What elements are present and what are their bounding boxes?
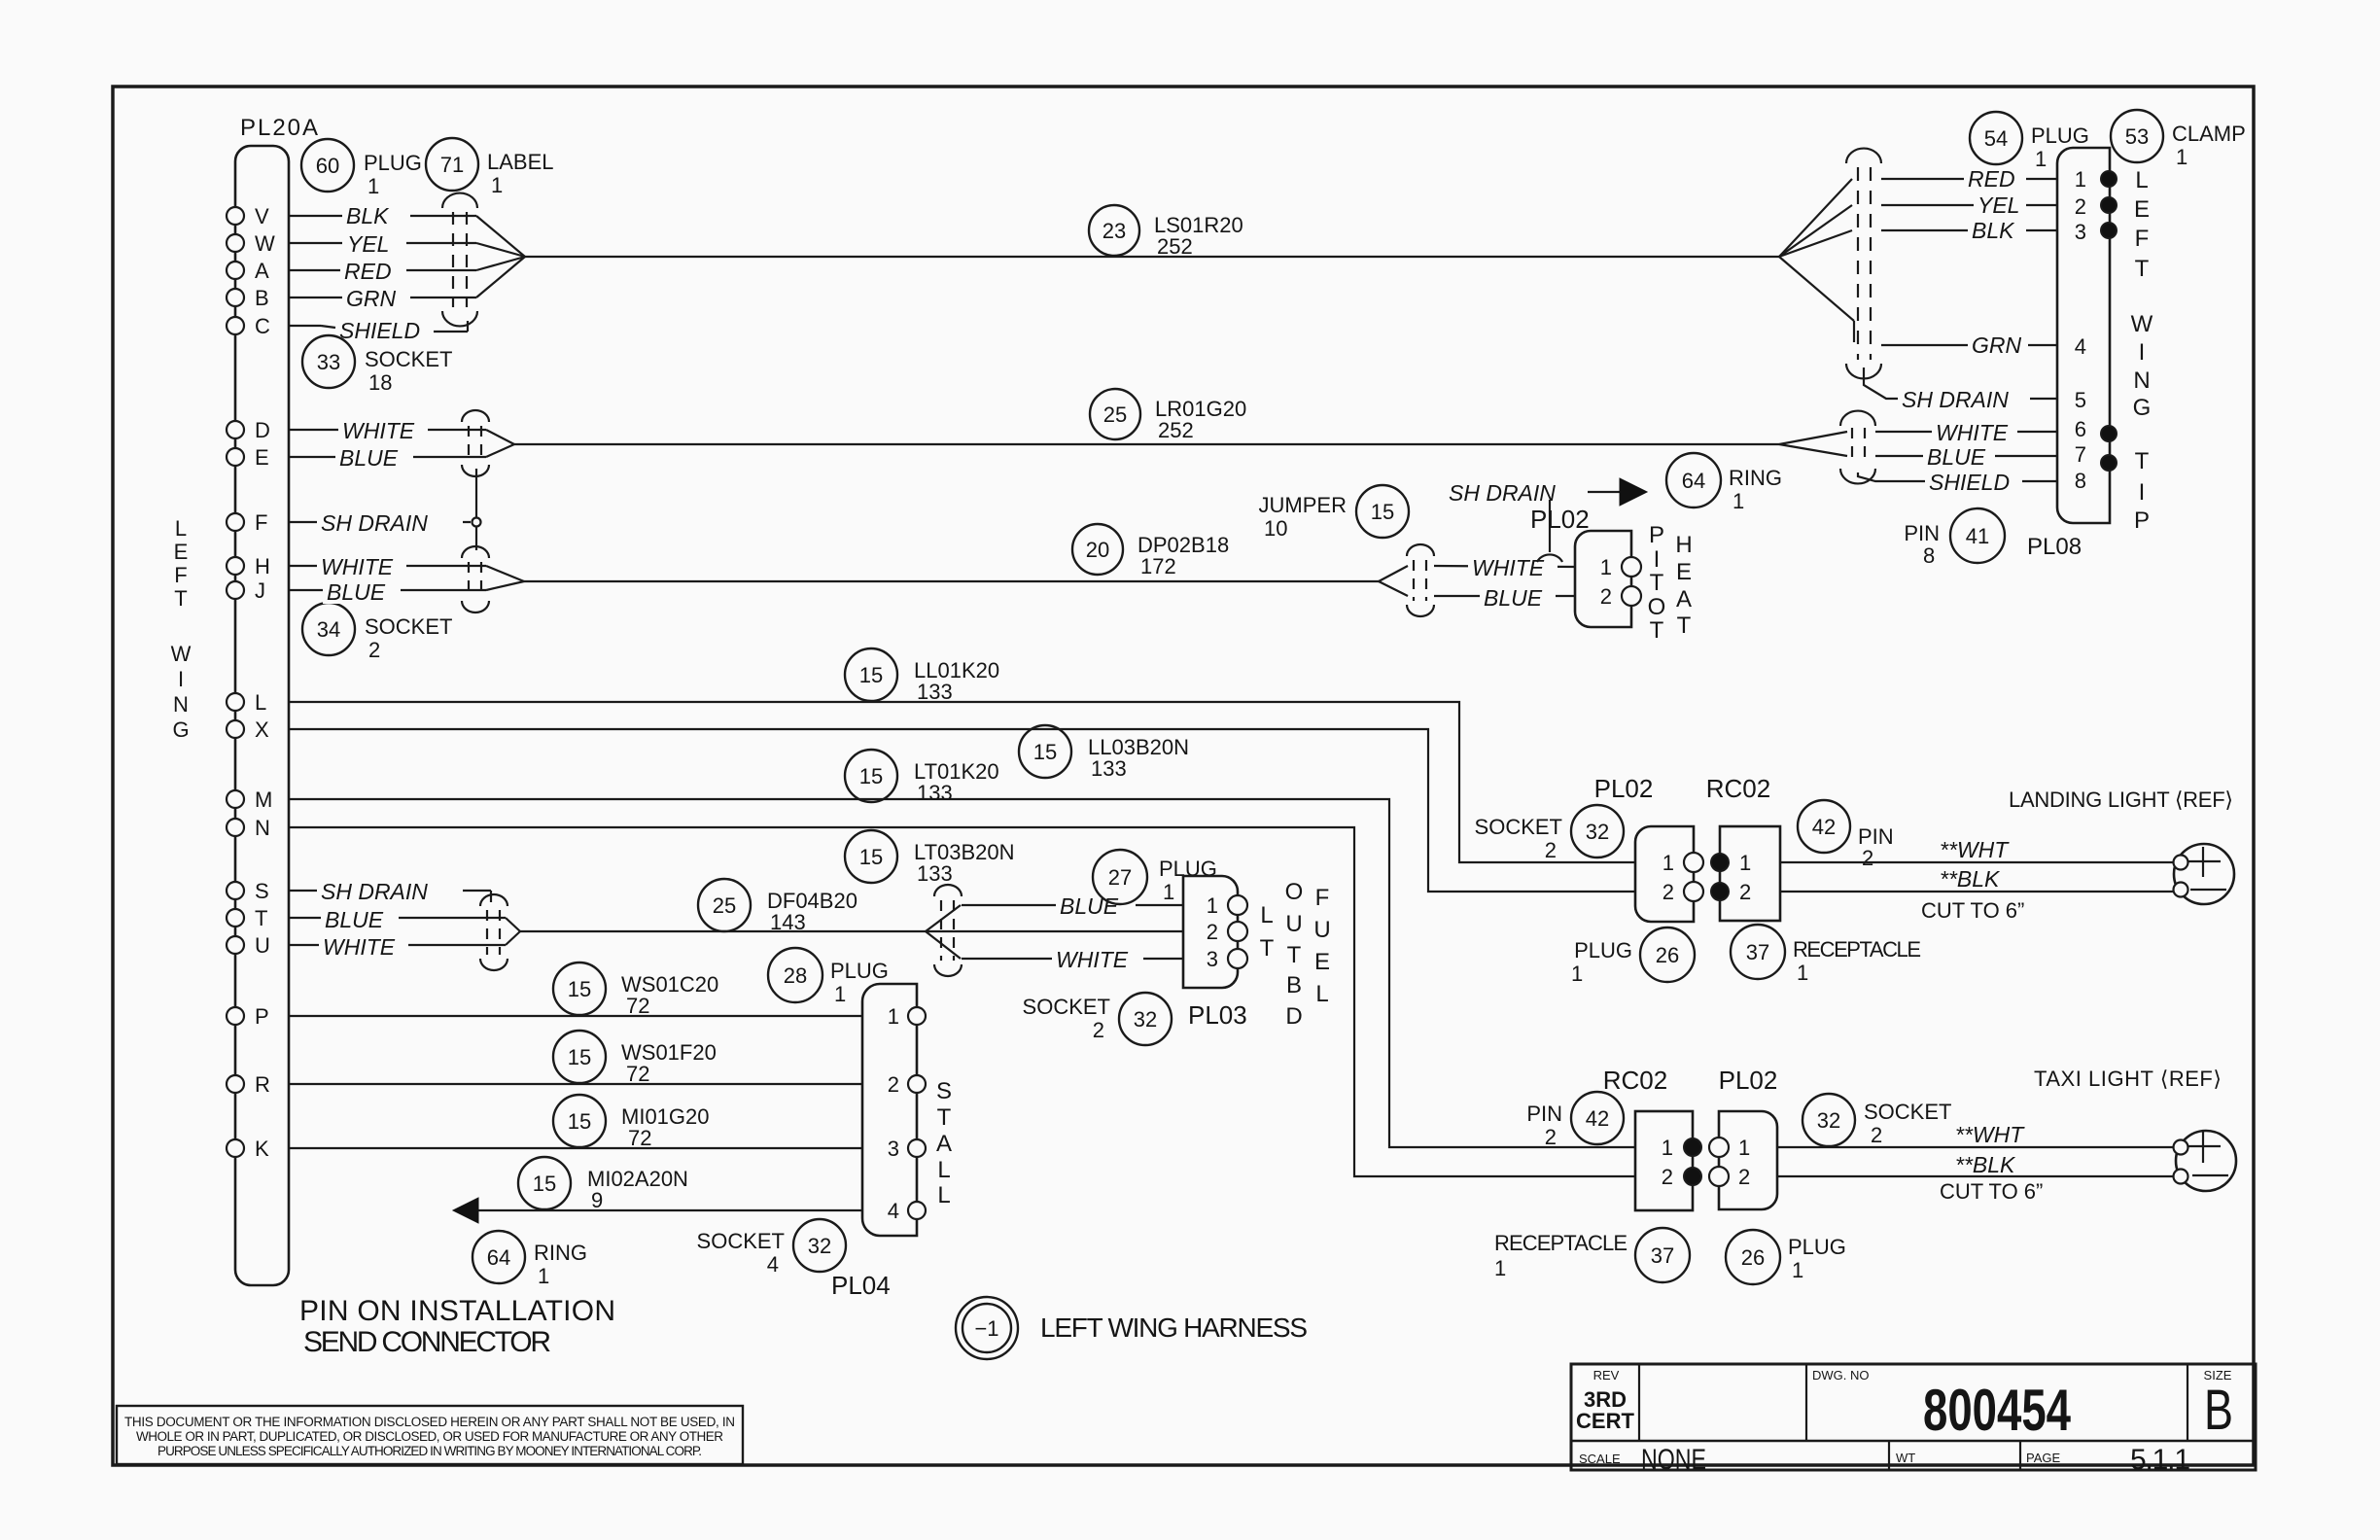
PL20A pin P [227, 1004, 269, 1029]
title block WT cell [1896, 1451, 1915, 1465]
svg-text:J: J [255, 578, 265, 603]
svg-text:25: 25 [1103, 402, 1127, 427]
svg-text:T: T [2135, 256, 2150, 282]
connector RC02 landing label [1706, 774, 1770, 803]
svg-text:RECEPTACLE: RECEPTACLE [1494, 1231, 1627, 1255]
shielded cable symbol PL08 lower [1840, 411, 1875, 484]
svg-text:15: 15 [1371, 500, 1394, 524]
wire B GRN [321, 257, 525, 311]
PL08 strap dots [2101, 171, 2117, 471]
HEAT vertical label [1675, 532, 1692, 639]
PL20A pin U [227, 933, 316, 958]
svg-text:T: T [1287, 942, 1302, 968]
callout 32 SOCKET 2 taxi [1802, 1094, 1951, 1147]
callout 64 RING 1 top right [1666, 453, 1782, 513]
svg-text:RED: RED [1968, 166, 2015, 192]
svg-text:SOCKET: SOCKET [1023, 995, 1110, 1019]
svg-text:O: O [1285, 879, 1304, 905]
callout 26 PLUG 1 landing [1571, 927, 1695, 986]
svg-text:E: E [1314, 949, 1330, 975]
svg-text:15: 15 [859, 663, 883, 687]
svg-text:4: 4 [767, 1252, 779, 1277]
right fan to PL08 pins 6-7 [1779, 432, 1847, 456]
svg-text:SHIELD: SHIELD [1929, 470, 2010, 495]
svg-text:RED: RED [344, 259, 392, 284]
svg-text:D: D [1285, 1003, 1302, 1030]
svg-text:BLK: BLK [346, 203, 390, 228]
svg-text:REV: REV [1593, 1368, 1620, 1382]
callout 25 LR01G20 252 [1090, 389, 1246, 442]
drain junction node [472, 518, 481, 527]
svg-text:143: 143 [770, 910, 806, 934]
svg-text:SH DRAIN: SH DRAIN [1449, 480, 1556, 506]
PL20A pin H [227, 554, 321, 578]
callout 42 PIN 2 taxi [1526, 1092, 1624, 1149]
svg-text:1: 1 [1163, 880, 1174, 904]
pitot cable fan [1379, 566, 1408, 596]
fuel cable fan [926, 905, 1183, 959]
wire MI02A20N to PL04 pin 4 [478, 1209, 862, 1211]
connector PL04 label [831, 1271, 891, 1300]
callout 32 SOCKET 2 fuel [1023, 993, 1172, 1045]
svg-text:BLK: BLK [1972, 218, 2015, 243]
PL20A pin W [227, 231, 321, 256]
svg-text:PAGE: PAGE [2026, 1451, 2060, 1465]
harness item -1 symbol [956, 1297, 1018, 1359]
svg-text:3: 3 [1207, 947, 1218, 971]
PL20A pin R [227, 1072, 270, 1097]
wire H WHITE [317, 552, 524, 581]
arrow pin on installation [453, 1198, 478, 1223]
connector PL20A body [235, 115, 318, 1285]
svg-text:THIS DOCUMENT OR THE INFOR: THIS DOCUMENT OR THE INFORMATION DISCLOS… [124, 1415, 735, 1429]
svg-text:53: 53 [2125, 124, 2149, 149]
wire P WS01C20 [289, 1015, 862, 1017]
callout 15 LT01K20 133 [845, 750, 999, 805]
svg-text:SEND CONNECTOR: SEND CONNECTOR [303, 1326, 551, 1358]
svg-text:SOCKET: SOCKET [1475, 815, 1562, 839]
svg-text:**BLK: **BLK [1955, 1152, 2016, 1177]
svg-text:RECEPTACLE: RECEPTACLE [1793, 937, 1921, 962]
callout 42 PIN 2 landing [1798, 800, 1894, 870]
connector PL02 landing body [1635, 826, 1703, 922]
svg-text:WHITE: WHITE [342, 418, 415, 443]
svg-text:SCALE: SCALE [1579, 1452, 1621, 1466]
svg-text:SH DRAIN: SH DRAIN [321, 510, 428, 536]
connector PL08 label [2027, 534, 2082, 560]
wire M LT01K20 [289, 799, 1635, 1147]
callout 34 SOCKET 2 [302, 603, 452, 662]
svg-text:5: 5 [2075, 388, 2086, 412]
title block outline [1571, 1364, 2256, 1470]
callout 15 JUMPER 10 [1259, 485, 1409, 541]
shielded cable symbol pitot [1407, 544, 1434, 616]
callout 15 WS01C20 72 [553, 962, 718, 1018]
svg-text:W: W [255, 231, 275, 256]
svg-text:LEFT WING HARNESS: LEFT WING HARNESS [1040, 1312, 1308, 1343]
wire F SH DRAIN [317, 508, 471, 536]
svg-text:U: U [255, 933, 270, 958]
svg-text:F: F [174, 563, 187, 587]
wire YEL to PL08 pin 2 [1881, 192, 2057, 218]
svg-text:PIN: PIN [1526, 1102, 1562, 1126]
svg-text:252: 252 [1157, 234, 1193, 259]
svg-text:U: U [1285, 911, 1302, 937]
wire LS01R20 main run [525, 256, 1779, 258]
LEFT WING TIP vertical label [2131, 167, 2153, 534]
wire V BLK [321, 200, 525, 257]
svg-text:2: 2 [2075, 194, 2086, 219]
PL20A pin K [227, 1137, 269, 1161]
svg-text:PIN: PIN [1904, 521, 1940, 545]
svg-text:RC02: RC02 [1603, 1066, 1667, 1095]
svg-text:PURPOSE UNLESS SPECIFICALLY: PURPOSE UNLESS SPECIFICALLY AUTHORIZED I… [157, 1444, 702, 1458]
LANDING LIGHT REF label [2009, 787, 2233, 812]
svg-text:BLUE: BLUE [1060, 893, 1119, 919]
connector RC02 landing body [1711, 826, 1780, 921]
wire BLUE to PL08 pin 7 [1875, 442, 2057, 470]
shielded cable symbol STU [480, 894, 507, 970]
svg-text:10: 10 [1264, 516, 1287, 541]
svg-text:9: 9 [591, 1188, 603, 1212]
connector PL04 body [862, 984, 926, 1236]
svg-text:2: 2 [888, 1072, 899, 1097]
PL20A pin L [227, 690, 266, 715]
callout 27 PLUG 1 [1093, 850, 1217, 904]
svg-text:BLUE: BLUE [1927, 444, 1986, 470]
svg-text:X: X [255, 717, 269, 742]
callout 15 LT03B20N 133 [845, 830, 1015, 886]
shielded cable symbol 1 [442, 193, 477, 327]
svg-text:1: 1 [491, 173, 503, 197]
callout 64 RING 1 bottom [472, 1231, 587, 1288]
svg-text:18: 18 [368, 370, 392, 395]
svg-text:1: 1 [1738, 1136, 1750, 1160]
svg-text:YEL: YEL [1977, 192, 2019, 218]
svg-text:RC02: RC02 [1706, 774, 1770, 803]
FUEL vertical label [1313, 885, 1330, 1007]
shielded cable symbol 2 [462, 410, 489, 476]
wire SHIELD to PL08 pin 8 [1858, 468, 2057, 495]
svg-text:S: S [936, 1078, 952, 1104]
LEFT WING vertical label [171, 516, 192, 742]
svg-text:60: 60 [316, 154, 339, 178]
svg-text:15: 15 [568, 977, 591, 1001]
svg-text:20: 20 [1086, 538, 1109, 562]
svg-text:1: 1 [1207, 893, 1218, 918]
svg-text:15: 15 [568, 1109, 591, 1134]
svg-text:71: 71 [440, 153, 464, 177]
connector PL03 label [1188, 1000, 1247, 1030]
svg-text:1: 1 [834, 982, 846, 1006]
svg-text:42: 42 [1586, 1106, 1609, 1131]
wire S SH DRAIN [316, 877, 491, 904]
svg-text:SOCKET: SOCKET [697, 1229, 785, 1253]
title block SCALE cell [1579, 1444, 1706, 1476]
CUT TO 6 landing note [1921, 898, 2024, 923]
svg-text:25: 25 [713, 893, 736, 918]
svg-text:PLUG: PLUG [364, 151, 422, 175]
svg-text:2: 2 [1207, 920, 1218, 944]
wire RED to PL08 pin 1 [1881, 165, 2057, 192]
wire A RED [321, 257, 525, 284]
title block SIZE cell [2204, 1368, 2233, 1442]
svg-text:2: 2 [368, 638, 380, 662]
svg-text:YEL: YEL [347, 231, 389, 257]
svg-text:RING: RING [534, 1241, 587, 1265]
svg-text:W: W [2131, 311, 2153, 337]
callout 15 MI01G20 72 [553, 1095, 710, 1150]
svg-text:2: 2 [1662, 880, 1674, 904]
svg-text:15: 15 [859, 764, 883, 788]
svg-text:15: 15 [568, 1045, 591, 1069]
svg-text:BLUE: BLUE [327, 579, 386, 605]
svg-text:−1: −1 [974, 1316, 998, 1341]
svg-text:WHOLE OR IN PART, DUPLICAT: WHOLE OR IN PART, DUPLICATED, OR DISCLOS… [136, 1429, 723, 1444]
svg-text:WHITE: WHITE [1936, 420, 2009, 445]
svg-text:1: 1 [1739, 851, 1751, 875]
svg-text:7: 7 [2075, 442, 2086, 467]
wire WHITE to PL03 pin 3 [962, 944, 1183, 972]
wire BLUE to PL03 pin 1 [962, 891, 1183, 919]
svg-text:CLAMP: CLAMP [2172, 122, 2246, 146]
svg-text:DWG. NO: DWG. NO [1812, 1368, 1870, 1382]
svg-text:L: L [937, 1157, 950, 1183]
svg-text:SH DRAIN: SH DRAIN [1902, 387, 2009, 412]
svg-text:2: 2 [1662, 1165, 1673, 1189]
PL02 pitot label [1530, 505, 1590, 534]
svg-text:F: F [2135, 226, 2150, 252]
wire WHITE to PL08 pin 6 [1875, 418, 2057, 445]
svg-text:H: H [1675, 532, 1692, 558]
callout 32 SOCKET 4 [697, 1219, 846, 1277]
svg-text:NONE: NONE [1641, 1444, 1706, 1476]
svg-text:E: E [1676, 559, 1692, 585]
svg-text:28: 28 [784, 963, 807, 988]
svg-text:2: 2 [1871, 1123, 1882, 1147]
svg-text:PLUG: PLUG [830, 959, 889, 983]
wire SH DRAIN jumper label [1449, 480, 1620, 506]
TAXI LIGHT REF label [2034, 1067, 2222, 1091]
svg-text:B: B [2204, 1379, 2233, 1442]
svg-text:26: 26 [1656, 943, 1679, 967]
wire taxi WHT [1777, 1122, 2174, 1147]
svg-text:2: 2 [1862, 846, 1873, 870]
taxi light lamp [2174, 1131, 2237, 1191]
svg-text:6: 6 [2075, 417, 2086, 441]
svg-text:T: T [1650, 570, 1664, 596]
svg-text:1: 1 [1662, 851, 1674, 875]
PL20A pin E [227, 445, 321, 470]
wire J BLUE [321, 577, 524, 605]
wire K MI01G20 [289, 1147, 862, 1149]
svg-text:M: M [255, 787, 272, 812]
svg-text:WHITE: WHITE [1472, 555, 1545, 580]
wire W YEL [321, 229, 525, 257]
wire DF04B20 main run [520, 930, 926, 932]
svg-text:BLUE: BLUE [325, 907, 384, 932]
svg-text:L: L [175, 516, 187, 541]
svg-text:I: I [2139, 479, 2146, 506]
svg-text:SHIELD: SHIELD [339, 318, 420, 343]
svg-text:B: B [255, 286, 269, 310]
svg-text:T: T [2135, 448, 2150, 474]
svg-text:32: 32 [808, 1234, 831, 1258]
svg-text:5.1.1: 5.1.1 [2130, 1444, 2190, 1476]
svg-text:32: 32 [1817, 1108, 1840, 1133]
svg-text:C: C [255, 314, 270, 338]
callout 60 PLUG 1 [301, 139, 422, 198]
svg-text:PL02: PL02 [1594, 774, 1654, 803]
PL20A pin N [227, 816, 270, 840]
landing light lamp [2174, 844, 2235, 904]
callout 37 RECEPTACLE 1 taxi [1494, 1228, 1690, 1282]
callout 15 MI02A20N 9 [518, 1157, 688, 1212]
svg-text:P: P [255, 1004, 269, 1029]
PITOT vertical label [1648, 522, 1666, 644]
callout 25 DF04B20 143 [698, 879, 857, 934]
svg-text:15: 15 [533, 1172, 556, 1196]
svg-text:54: 54 [1984, 126, 2008, 151]
connector PL08 body [2057, 148, 2110, 523]
svg-text:32: 32 [1134, 1007, 1157, 1032]
svg-text:PLUG: PLUG [1788, 1235, 1846, 1259]
svg-text:JUMPER: JUMPER [1259, 493, 1347, 517]
svg-text:LANDING LIGHT ⟨REF⟩: LANDING LIGHT ⟨REF⟩ [2009, 787, 2233, 812]
wire U WHITE [316, 931, 520, 960]
svg-text:CUT TO 6”: CUT TO 6” [1940, 1179, 2043, 1204]
svg-text:8: 8 [1923, 543, 1935, 568]
svg-text:32: 32 [1586, 820, 1609, 844]
svg-text:L: L [255, 690, 266, 715]
svg-text:O: O [1648, 594, 1666, 620]
svg-text:133: 133 [917, 861, 953, 886]
svg-text:15: 15 [1033, 740, 1057, 764]
svg-text:**WHT: **WHT [1940, 837, 2010, 862]
PL20A pin V [227, 204, 321, 228]
svg-text:PIN ON INSTALLATION: PIN ON INSTALLATION [299, 1295, 615, 1327]
title block DWG NO cell [1812, 1368, 2071, 1443]
svg-text:133: 133 [1091, 756, 1127, 781]
connector PL02 pitot heat body [1575, 531, 1641, 627]
connector RC02 taxi label [1603, 1066, 1667, 1095]
PL20A pin B [227, 286, 321, 310]
svg-text:41: 41 [1966, 524, 1989, 548]
svg-text:N: N [255, 816, 270, 840]
svg-text:1: 1 [2075, 167, 2086, 192]
wire SH DRAIN to PL08 pin 5 [1864, 367, 2057, 412]
wire landing BLK [1780, 866, 2174, 892]
svg-text:WHITE: WHITE [1056, 947, 1129, 972]
svg-text:27: 27 [1108, 865, 1132, 890]
PL20A pin C [227, 314, 321, 338]
svg-text:WT: WT [1896, 1451, 1915, 1465]
svg-text:1: 1 [367, 174, 379, 198]
svg-text:L: L [1260, 902, 1273, 928]
svg-text:72: 72 [626, 1062, 649, 1086]
svg-text:L: L [937, 1182, 950, 1208]
svg-text:3: 3 [2075, 220, 2086, 244]
svg-text:T: T [937, 1104, 952, 1131]
svg-text:1: 1 [1571, 962, 1583, 986]
svg-text:3: 3 [888, 1137, 899, 1161]
svg-text:U: U [1313, 917, 1330, 943]
svg-text:**WHT: **WHT [1955, 1122, 2025, 1147]
callout 26 PLUG 1 taxi [1726, 1230, 1846, 1284]
drain wire vertical [475, 469, 477, 550]
LEFT WING HARNESS title [1040, 1312, 1308, 1343]
svg-text:T: T [1260, 935, 1275, 962]
svg-text:172: 172 [1140, 554, 1176, 578]
callout 41 PIN 8 [1904, 508, 2005, 568]
PL20A pin X [227, 717, 269, 742]
PL20A pin A [227, 259, 321, 283]
svg-text:15: 15 [859, 845, 883, 869]
legal notice box [117, 1406, 743, 1464]
svg-text:4: 4 [2075, 334, 2086, 359]
callout 15 WS01F20 72 [553, 1031, 717, 1086]
svg-text:26: 26 [1741, 1245, 1765, 1270]
callout 54 PLUG 1 [1970, 112, 2089, 171]
svg-text:T: T [1677, 612, 1692, 639]
callout 23 LS01R20 252 [1089, 205, 1243, 259]
wire taxi BLK [1777, 1152, 2174, 1177]
svg-text:G: G [172, 717, 189, 742]
svg-text:BLUE: BLUE [339, 445, 399, 471]
svg-text:CERT: CERT [1576, 1409, 1634, 1433]
PL20A pin S [227, 879, 316, 903]
svg-text:B: B [1286, 972, 1302, 998]
connector PL02 taxi body [1709, 1111, 1777, 1209]
svg-text:A: A [1676, 586, 1692, 612]
PIN ON INSTALLATION note [299, 1295, 615, 1358]
callout 71 LABEL 1 [426, 138, 554, 197]
svg-text:L: L [1315, 981, 1328, 1007]
svg-text:1: 1 [1732, 489, 1744, 513]
PL20A pin T [227, 906, 316, 930]
shielded cable symbol 3 [462, 546, 489, 612]
PL20A pin F [227, 510, 321, 535]
wire BLK to PL08 pin 3 [1881, 217, 2057, 243]
arrow to PL02 pitot heat [1620, 478, 1647, 506]
svg-text:F: F [255, 510, 267, 535]
svg-text:E: E [2134, 196, 2150, 223]
svg-text:P: P [2134, 507, 2150, 534]
svg-text:GRN: GRN [1972, 332, 2022, 358]
svg-text:WHITE: WHITE [321, 554, 394, 579]
svg-text:PLUG: PLUG [2031, 123, 2089, 148]
callout 28 PLUG 1 [768, 948, 889, 1006]
CUT TO 6 taxi note [1940, 1179, 2043, 1204]
svg-text:PL03: PL03 [1188, 1000, 1247, 1030]
svg-text:PL08: PL08 [2027, 534, 2082, 560]
wire E BLUE [321, 443, 514, 471]
svg-text:1: 1 [1797, 961, 1808, 985]
svg-text:L: L [2135, 167, 2148, 193]
svg-text:PL20A: PL20A [240, 115, 318, 141]
svg-text:2: 2 [1600, 584, 1612, 609]
jumper drain wire [1537, 500, 1562, 562]
svg-text:A: A [936, 1131, 952, 1157]
wire R WS01F20 [289, 1083, 862, 1085]
wire D WHITE [321, 416, 514, 444]
STALL vertical label [936, 1078, 952, 1208]
svg-text:133: 133 [917, 781, 953, 805]
svg-text:1: 1 [1662, 1136, 1673, 1160]
svg-text:GRN: GRN [346, 286, 397, 311]
svg-text:PL02: PL02 [1530, 505, 1590, 534]
svg-text:1: 1 [538, 1264, 549, 1288]
